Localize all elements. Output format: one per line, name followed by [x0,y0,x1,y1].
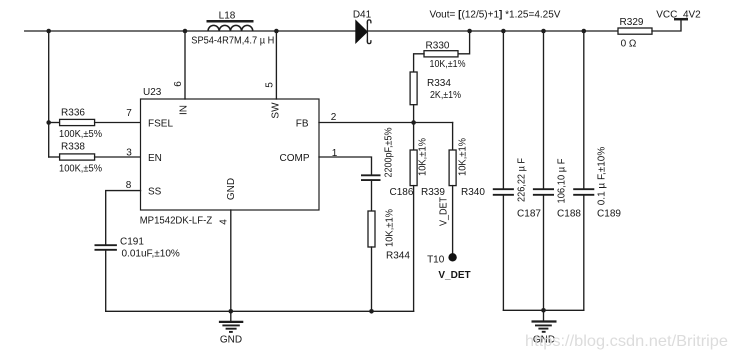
node junction left branch / R336 [46,120,51,125]
svg-text:R330: R330 [426,41,450,52]
pin number 4 [219,219,230,225]
wire pin 2 FB net [319,122,453,124]
diode D41 (schottky) [353,10,372,44]
svg-text:1: 1 [332,148,338,159]
node junction top rail / pin6 IN [183,29,188,34]
svg-text:5: 5 [265,82,276,88]
node junction bottom rail / R344 [369,309,374,314]
svg-text:C188: C188 [557,208,581,219]
capacitor C186 2200pF 5% [361,127,414,198]
svg-text:2200pF,±5%: 2200pF,±5% [383,127,394,177]
wire R344 to bottom rail [371,247,373,311]
svg-text:7: 7 [126,108,132,119]
capacitor C187 22uF [493,31,542,310]
svg-text:R336: R336 [61,108,85,119]
svg-text:R344: R344 [386,251,410,262]
node junction FB / R334-R339 [411,120,416,125]
wire top rail left segment [25,30,356,32]
svg-text:3: 3 [126,147,132,158]
svg-text:6: 6 [173,81,184,87]
svg-text:4: 4 [219,219,230,225]
capacitor C189 0.1uF 10% [573,31,621,310]
svg-text:226,22 µ F: 226,22 µ F [516,158,527,202]
resistor R330 10K 1% [414,41,466,73]
svg-text:Vout= [(12/5)+1] *1.25=4.25V: Vout= [(12/5)+1] *1.25=4.25V [430,10,561,21]
net label Vout formula [430,10,561,21]
node junction top rail / C187 [501,29,506,34]
svg-text:R329: R329 [620,17,644,28]
svg-text:EN: EN [148,153,162,164]
svg-text:10K,±1%: 10K,±1% [430,59,466,70]
resistor R334 2K 1% [410,72,461,123]
node junction top rail / R330 branch [467,29,472,34]
svg-text:R340: R340 [461,187,485,198]
pin number 1 [332,148,338,159]
pin number 2 [331,112,337,123]
svg-text:SP54-4R7M,4.7 µ H: SP54-4R7M,4.7 µ H [191,35,274,46]
wire C186 to R344 [371,180,373,211]
svg-text:T10: T10 [427,255,445,266]
svg-text:C186: C186 [390,187,414,198]
ground symbol left [219,311,243,345]
wire bottom right rail [503,309,583,311]
capacitor C191 0.01uF 10% [95,237,180,260]
resistor R338 100K 5% [49,142,141,175]
pin number 6 [173,81,184,87]
wire top rail right segment [368,30,618,32]
node junction bottom right rail / GND [541,308,546,313]
svg-text:C187: C187 [517,208,541,219]
node junction top rail / C188 [541,29,546,34]
svg-text:R339: R339 [421,187,445,198]
svg-text:V_DET: V_DET [438,197,449,226]
resistor R339 10K 1% [410,123,445,312]
svg-text:106,10 µ F: 106,10 µ F [556,159,567,204]
svg-text:0.01uF,±10%: 0.01uF,±10% [122,249,180,260]
svg-text:FSEL: FSEL [148,119,173,130]
svg-text:10K,±1%: 10K,±1% [384,209,395,247]
node junction top rail / C189 [582,29,587,34]
net V_DET rotated label [438,197,449,226]
resistor R336 100K 5% [49,108,141,141]
node junction top rail / left branch [46,29,51,34]
wire pin 6 IN [184,31,186,99]
watermark [525,333,728,350]
svg-text:C191: C191 [120,237,144,248]
resistor R344 10K 1% [368,209,410,262]
svg-text:C189: C189 [597,208,621,219]
svg-text:FB: FB [296,119,309,130]
ground symbol right [532,310,557,345]
svg-text:U23: U23 [143,87,162,98]
wire R329 to VCC [652,20,681,32]
svg-text:GND: GND [226,178,237,200]
svg-text:R338: R338 [61,142,85,153]
capacitor C188 10uF [533,31,581,310]
wire top rail to R330 [458,31,470,54]
svg-text:IN: IN [179,105,190,115]
svg-text:2: 2 [331,112,337,123]
svg-text:L18: L18 [219,10,236,21]
svg-text:10K,±1%: 10K,±1% [418,138,429,176]
wire pin 8 SS [106,191,141,245]
node junction bottom rail / GND pin4 [229,309,234,314]
svg-text:SW: SW [271,102,282,119]
svg-text:GND: GND [220,334,242,345]
svg-text:COMP: COMP [280,153,310,164]
svg-text:https://blog.csdn.net/Britripe: https://blog.csdn.net/Britripe [525,333,728,350]
svg-text:D41: D41 [353,10,372,21]
svg-text:MP1542DK-LF-Z: MP1542DK-LF-Z [140,216,213,227]
IC U23 MP1542DK-LF-Z [140,87,319,226]
pin number 3 [126,147,132,158]
svg-text:8: 8 [126,180,132,191]
svg-text:10K,±1%: 10K,±1% [457,138,468,176]
wire pin 5 SW [275,31,277,99]
svg-text:100K,±5%: 100K,±5% [59,129,102,140]
wire bottom left rail [106,310,414,312]
svg-text:100K,±5%: 100K,±5% [59,164,102,175]
wire C191 to bottom rail [105,250,107,311]
svg-text:V_DET: V_DET [438,270,470,281]
power VCC_4V2 [656,9,701,20]
svg-text:VCC_4V2: VCC_4V2 [656,9,701,20]
node junction top rail / pin5 SW [274,29,279,34]
svg-text:2K,±1%: 2K,±1% [430,90,461,101]
inductor L18 SP54-4R7M 4.7uH [191,10,274,46]
test point T10 [427,253,471,281]
wire pin 1 COMP [319,157,372,175]
wire pin 4 GND [230,210,232,311]
pin number 5 [265,82,276,88]
wire left branch vertical [48,31,50,157]
svg-text:0 Ω: 0 Ω [621,39,637,50]
pin number 8 [126,180,132,191]
resistor R340 10K 1% [449,123,485,254]
resistor R329 0 ohm [618,17,652,50]
svg-text:R334: R334 [427,78,451,89]
svg-text:0.1 µ F,±10%: 0.1 µ F,±10% [597,147,608,206]
pin number 7 [126,108,132,119]
svg-text:SS: SS [148,187,162,198]
